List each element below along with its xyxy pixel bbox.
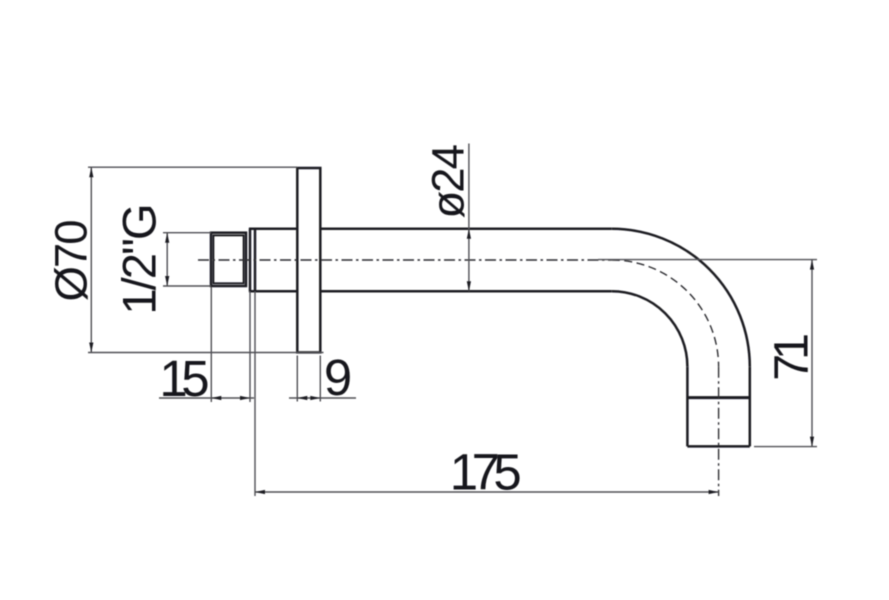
dimension ø24: arrow down <box>467 281 471 291</box>
dimension 9: arrow left <box>297 396 307 400</box>
aerator joint line <box>687 396 749 399</box>
centerline horizontal (dash-dot) <box>198 259 612 261</box>
dimension 15: arrow left <box>211 396 221 400</box>
svg-text:ø24: ø24 <box>423 145 474 218</box>
dimension 175: arrow right <box>709 490 719 494</box>
downspout left edge <box>686 367 689 447</box>
dimension Ø70: arrow up <box>89 167 93 177</box>
dimension 1/2"G: dimension line <box>166 233 168 286</box>
dimension 1/2"G: extension line top <box>163 232 211 234</box>
spout bend outer wall arc <box>612 229 750 367</box>
dimension 9: extension line left <box>296 356 298 402</box>
dimension ø24: arrow up <box>467 229 471 239</box>
dimension Ø70: arrow down <box>89 343 93 353</box>
thread 1/2"G nipple outer profile <box>211 233 246 286</box>
dimension 71: extension line bottom <box>754 446 817 448</box>
dimension 71: extension line top <box>598 259 817 261</box>
svg-text:15: 15 <box>159 350 208 407</box>
dimension 175: extension line left <box>254 291 256 496</box>
dimension ø24: dimension line <box>468 144 470 292</box>
shoulder rear face line (wall plane) <box>254 229 257 291</box>
centerline bend arc (dashed) <box>612 260 719 367</box>
svg-text:1/2"G: 1/2"G <box>113 205 166 314</box>
dimension 1/2"G: arrow down <box>165 276 169 286</box>
dimension 15: extension line left <box>210 287 212 402</box>
spout tube bottom edge (right of flange) <box>320 290 612 293</box>
thread core (minor diameter) lines <box>213 235 243 283</box>
svg-text:Ø70: Ø70 <box>46 221 97 302</box>
dimension 175: arrow left <box>255 490 265 494</box>
dimension 15: extension line right <box>249 291 251 402</box>
dimension 71: arrow up <box>810 260 814 270</box>
dimension 175: dimension line <box>255 491 719 493</box>
dimension 9: arrow right <box>310 396 320 400</box>
downspout right edge <box>749 367 752 447</box>
shoulder front face line <box>249 229 252 291</box>
dimension 1/2"G: arrow up <box>165 233 169 243</box>
spout bend inner wall arc <box>612 291 688 367</box>
spout tube top edge (right of flange) <box>320 228 612 231</box>
svg-text:71: 71 <box>765 335 819 381</box>
dimension Ø70: dimension line <box>90 167 92 352</box>
dimension 71: arrow down <box>810 437 814 447</box>
dimension 9: dimension line <box>289 397 356 399</box>
spout tube top edge (left of flange) <box>249 228 297 231</box>
dimension Ø70: extension line top <box>88 166 297 168</box>
wall flange Ø70 <box>297 168 320 352</box>
dimension 1/2"G: extension line bottom <box>163 285 211 287</box>
svg-text:175: 175 <box>450 444 521 501</box>
spout outlet bottom face <box>687 445 749 448</box>
dimension Ø70: extension line bottom <box>88 352 324 354</box>
dimension 15: dimension line <box>159 397 254 399</box>
dimension 9: extension line right <box>319 356 321 402</box>
dimension 15: arrow right <box>240 396 250 400</box>
dimension 71: dimension line <box>811 260 813 447</box>
spout tube bottom edge (left of flange) <box>249 290 297 293</box>
centerline vertical of outlet (dash-dot) <box>718 367 720 496</box>
